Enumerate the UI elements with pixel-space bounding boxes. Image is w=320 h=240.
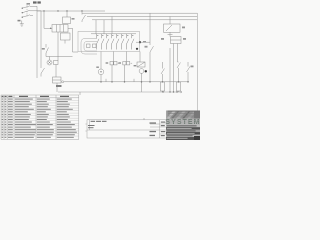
main switch QS label: [33, 1, 41, 3]
watermark logo band: [166, 119, 200, 125]
bus L1 top: [37, 10, 105, 12]
contact K1b: [177, 62, 181, 83]
tick above title block: [143, 118, 145, 120]
terminal strip contacts: [97, 34, 135, 50]
wire P1 to bus: [141, 73, 143, 92]
relay coil K3: [161, 37, 186, 44]
watermark row 3: [166, 130, 200, 132]
ground PE symbol: [18, 20, 24, 26]
bus N: [92, 19, 197, 21]
watermark row 6: [166, 137, 200, 140]
valve Y2: [123, 52, 132, 65]
pressure switch B1: [50, 25, 68, 33]
wire loop inner b: [84, 42, 97, 52]
wire loop from B1: [68, 28, 78, 52]
contact K1c: [187, 62, 194, 83]
wire vertical x150: [149, 13, 151, 82]
parts table: [1, 95, 79, 139]
bus L2: [82, 12, 197, 14]
aux contact block a: [87, 44, 91, 48]
switch pole 3: [22, 15, 33, 18]
wire B2 to bus N: [56, 83, 58, 92]
switch pole 1: [22, 6, 37, 9]
wire Y2 to bus: [124, 65, 126, 83]
table header text: [2, 96, 69, 97]
feed line above strip: [91, 33, 136, 35]
valve Y3: [137, 52, 145, 68]
watermark row 4: [166, 132, 200, 135]
watermark row 5: [166, 135, 200, 137]
wire drop x44: [44, 11, 52, 28]
drop to strip x96: [95, 20, 97, 34]
contact on pole2 wire: [41, 68, 45, 77]
contactor K2: [164, 17, 186, 33]
indicator H1 circle: [47, 60, 52, 65]
wire vertical from pole2: [40, 11, 42, 68]
component labels row: [96, 62, 136, 68]
contact K1a: [161, 62, 165, 83]
lamp E2: [177, 82, 181, 92]
watermark box: [165, 111, 200, 141]
drop to strip x104: [103, 20, 105, 34]
wire K3 down b: [177, 44, 179, 63]
title block text: [88, 121, 165, 136]
pump P1 circle: [139, 69, 147, 74]
wire M1 to bus: [100, 75, 102, 83]
label above switch: [27, 3, 31, 5]
table cell text: [2, 99, 77, 138]
aux box H2: [54, 61, 59, 65]
contact S4: [42, 44, 49, 57]
valve Y1: [110, 52, 119, 65]
relay box K4: [61, 33, 71, 44]
node J1 bold: [136, 41, 150, 43]
fuse F1 box: [63, 11, 75, 24]
node on L1: [43, 10, 44, 11]
table row lines: [1, 100, 79, 136]
contact S3: [145, 46, 154, 52]
terminal block B2: [53, 77, 62, 83]
contact S2: [82, 11, 86, 22]
wire loop inner a: [81, 39, 97, 55]
motor M1: [98, 69, 104, 75]
frame right edge: [196, 13, 198, 111]
watermark photo band: [166, 111, 200, 119]
bus PE bottom: [62, 81, 188, 83]
main switch QS linkage (dashed): [26, 5, 28, 18]
bus L3: [87, 16, 197, 18]
watermark row 1: [166, 125, 200, 128]
switch pole 2: [22, 10, 41, 13]
stub node x134: [133, 79, 135, 82]
watermark row 2: [166, 127, 200, 130]
node J2 bold: [136, 48, 138, 50]
wire H2 to B2: [55, 65, 57, 78]
pin labels above strip: [97, 35, 133, 36]
symbol between K2 K3: [168, 32, 173, 36]
wire K3 down a: [173, 44, 175, 93]
wire link row: [46, 57, 73, 61]
wire Y1 to bus: [111, 65, 113, 83]
lamp E1: [161, 82, 165, 92]
label near bus left: [56, 85, 62, 87]
wire drop to M1: [100, 52, 102, 70]
stub node x106: [105, 79, 107, 82]
wire drop x58: [57, 32, 59, 61]
drop to strip x112: [111, 17, 113, 34]
enclosure A1: [78, 32, 140, 52]
label right of J1: [143, 41, 146, 43]
wire vertical from pole1: [36, 6, 38, 78]
aux contact block b: [93, 44, 97, 48]
wire x170 down: [169, 48, 171, 92]
bus N bottom: [58, 91, 182, 95]
title block: [86, 120, 198, 138]
